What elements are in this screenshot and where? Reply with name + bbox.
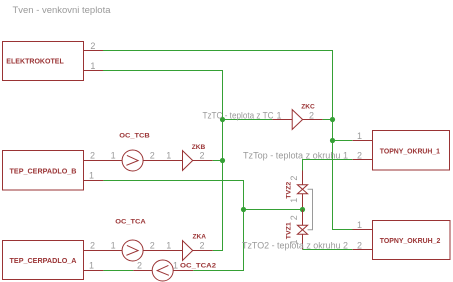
junction dot at ZKC output [330,117,335,122]
svg-text:1: 1 [111,241,116,251]
wire ZKB output to bus [213,160,223,162]
svg-text:2: 2 [150,151,155,161]
svg-text:ZKC: ZKC [301,104,315,111]
svg-text:TOPNY_OKRUH_1: TOPNY_OKRUH_1 [380,148,440,155]
svg-text:Tven - venkovni teplota: Tven - venkovni teplota [13,5,111,15]
svg-text:2: 2 [90,151,95,161]
TEP_CERPADLO_A pin 1 stub [84,270,104,272]
svg-text:2: 2 [309,111,314,121]
junction dot at ZKB output [220,158,225,163]
pump OC_TCB [122,150,143,171]
pump OC_TCA2 [152,260,173,281]
valve TVZ2 [297,185,307,194]
svg-text:OC_TCB: OC_TCB [119,132,150,139]
wire box A pin1 to OC_TCA2 input [103,270,133,272]
svg-text:2: 2 [90,241,95,251]
component TOPNY_OKRUH_2 [373,221,451,260]
svg-text:TVZ1: TVZ1 [286,222,293,239]
component TEP_CERPADLO_A [3,241,84,280]
svg-text:TVZ2: TVZ2 [286,181,293,198]
op-amp ZKC [292,110,302,130]
link pump OC_TCB to ZKB [143,160,182,162]
link pump OC_TCA to ZKA [143,250,182,252]
wire net: TEP_CERPADLO_B pin1 down to OC_TCA2 output [103,181,243,271]
TOPNY_OKRUH_2 pin 2 stub [353,249,373,251]
svg-text:2: 2 [289,176,299,181]
svg-text:1: 1 [276,111,281,121]
wire ZKC output to bus [323,119,333,121]
TOPNY_OKRUH_2 pin 1 stub [353,229,373,231]
TVZ1 pin 1 stub [302,234,304,249]
TVZ1 pin 2 stub [302,210,304,226]
ZKC pin 1 stub [272,119,292,121]
op-amp ZKB [183,151,193,171]
svg-text:1: 1 [357,131,362,141]
svg-text:2: 2 [199,151,204,161]
svg-text:1: 1 [89,261,94,271]
svg-text:1: 1 [166,241,171,251]
svg-text:2: 2 [150,241,155,251]
TEP_CERPADLO_B pin 1 stub [84,180,104,182]
svg-text:TOPNY_OKRUH_2: TOPNY_OKRUH_2 [380,238,441,245]
wire tee to valve center [244,209,303,211]
junction dot tee [241,207,246,212]
TVZ2 pin 2 stub [302,171,304,185]
wire: tap to TOPNY_OKRUH_1 pin1 [333,140,353,142]
ZKC pin 2 stub [303,119,323,121]
svg-text:1: 1 [289,198,299,203]
valve TVZ1 [297,225,307,234]
TEP_CERPADLO_A pin 2 link to pump [84,250,123,252]
svg-text:2: 2 [199,241,204,251]
wire net: TVZ1 to TOPNY_OKRUH_2 pin2 [303,249,353,251]
wire net: boiler pin2 to vertical bus x=332 down to TOPNY_OKRUH_2 pin1 [103,51,353,230]
svg-text:2: 2 [357,150,362,160]
junction dot at TOPNY_OKRUH_1 pin1 tap [330,138,335,143]
svg-text:OC_TCA: OC_TCA [115,219,146,226]
svg-text:TzTC - teplota z TC: TzTC - teplota z TC [203,111,274,121]
junction dot at TzTC tap [220,117,225,122]
svg-text:ZKA: ZKA [193,233,207,240]
TEP_CERPADLO_B pin 2 link to pump [84,160,123,162]
ELEKTROKOTEL pin 1 stub [84,70,104,72]
svg-text:1: 1 [357,220,362,230]
pump OC_TCA [122,240,143,261]
svg-text:1: 1 [89,171,94,181]
TOPNY_OKRUH_1 pin 1 stub [353,140,373,142]
ZKA pin 2 stub [193,250,213,252]
svg-text:1: 1 [173,261,178,271]
svg-text:1: 1 [111,151,116,161]
svg-text:1: 1 [90,61,95,71]
wire net: TOPNY_OKRUH_1 pin2 to TVZ2 [303,160,353,171]
svg-text:2: 2 [289,215,299,220]
svg-text:2: 2 [357,240,362,250]
ELEKTROKOTEL pin 2 stub [84,50,104,52]
component ELEKTROKOTEL [3,42,84,81]
ZKB pin 2 stub [193,160,213,162]
svg-text:2: 2 [137,261,142,271]
component TEP_CERPADLO_B [3,151,84,191]
svg-text:2: 2 [90,41,95,51]
svg-text:TEP_CERPADLO_B: TEP_CERPADLO_B [10,168,77,175]
component TOPNY_OKRUH_1 [373,131,450,171]
op-amp ZKA [183,241,193,261]
svg-text:OC_TCA2: OC_TCA2 [180,262,216,269]
OC_TCA2 pin 1 stub [173,270,193,272]
wire net: boiler pin1 to vertical bus x=222 down to ZKA output [103,71,223,251]
svg-text:1: 1 [166,151,171,161]
junction dot valves [300,207,305,212]
TVZ2 pin 1 stub [302,194,304,210]
OC_TCA2 pin 2 stub [133,270,152,272]
TOPNY_OKRUH_1 pin 2 stub [353,159,373,161]
gray actuator bracket [308,189,313,230]
svg-text:TEP_CERPADLO_A: TEP_CERPADLO_A [10,258,77,265]
wire: TzTC net to ZKC input [223,119,273,121]
svg-text:ELEKTROKOTEL: ELEKTROKOTEL [6,58,64,65]
